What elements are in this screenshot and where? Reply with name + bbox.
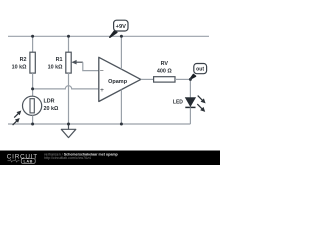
resistor RV 400 ohm	[154, 61, 175, 82]
svg-text:400 Ω: 400 Ω	[157, 68, 172, 74]
light arrow 1 from LED	[198, 96, 203, 101]
svg-text:out: out	[196, 67, 204, 73]
power flag +9V	[110, 20, 128, 37]
wire: op-amp V- pin to bottom rail	[120, 90, 122, 124]
svg-text:LAB: LAB	[24, 159, 33, 163]
wire: op-amp output to RV	[141, 78, 154, 80]
net flag out	[190, 64, 207, 80]
junction dot: rail / R2	[31, 35, 34, 38]
wire: rail to R2 top	[32, 36, 34, 52]
wire: R2 bottom to LDR top	[32, 73, 34, 96]
wire: op-amp V+ pin from rail	[120, 36, 122, 69]
footer watermark bar	[0, 151, 220, 166]
resistor R1 10k (preset / arrow tap)	[48, 52, 83, 73]
light arrow 2 from LED	[197, 104, 202, 109]
wire: rail to R1 top	[68, 36, 70, 52]
junction dot: node A on R2-LDR wire	[31, 87, 34, 90]
junction dot: op-amp V- / bottom rail	[120, 123, 123, 126]
wire: LDR bottom to rail	[32, 115, 34, 124]
svg-text:+: +	[100, 87, 104, 94]
wire: +9V top supply rail	[8, 35, 209, 37]
wire: node A to op-amp non-inverting input (hops over R1 wire)	[33, 86, 99, 89]
junction dot: rail / R1	[67, 35, 70, 38]
wire: out node down to LED	[189, 79, 191, 97]
resistor R2 10k	[12, 52, 36, 73]
svg-text:20 kΩ: 20 kΩ	[44, 106, 59, 112]
wire: LED cathode to bottom rail	[189, 107, 191, 124]
svg-text:RV: RV	[161, 61, 169, 67]
junction dot: rail / op-amp V+	[120, 35, 123, 38]
svg-text:R2: R2	[20, 57, 27, 63]
svg-text:10 kΩ: 10 kΩ	[12, 64, 27, 70]
light arrow 2 into LDR	[13, 120, 18, 125]
op-amp Opamp	[99, 57, 141, 101]
wire: RV to out node	[175, 78, 190, 80]
svg-text:Opamp: Opamp	[108, 79, 128, 85]
light arrow 1 into LDR	[14, 113, 19, 118]
svg-text:http://circuitlab.com/c/cw76z4: http://circuitlab.com/c/cw76z4	[44, 156, 91, 160]
svg-text:10 kΩ: 10 kΩ	[48, 64, 63, 70]
LED	[173, 96, 206, 112]
junction dot: R1 bottom / bottom rail	[67, 123, 70, 126]
wire: ground bottom rail	[8, 123, 190, 125]
ground	[61, 124, 76, 138]
svg-text:LED: LED	[173, 100, 183, 106]
junction dot: LDR / bottom rail	[31, 123, 34, 126]
svg-text:LDR: LDR	[44, 99, 55, 105]
svg-text:+9V: +9V	[116, 24, 126, 30]
wire: R1 wiper to op-amp inverting input	[83, 62, 99, 70]
junction dot: out node	[189, 78, 192, 81]
svg-text:−: −	[100, 67, 104, 74]
photoresistor LDR 20k	[13, 96, 59, 125]
wire: R1 bottom down to ground rail	[68, 73, 70, 124]
svg-text:R1: R1	[56, 57, 63, 63]
